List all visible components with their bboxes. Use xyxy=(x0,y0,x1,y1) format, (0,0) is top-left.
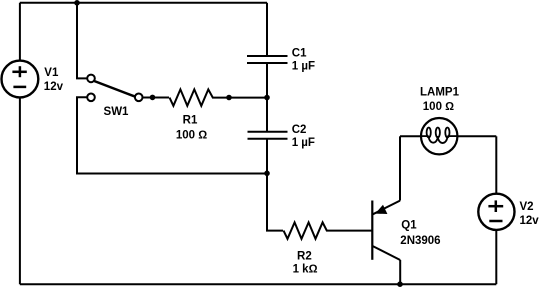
svg-text:R2: R2 xyxy=(297,251,312,263)
svg-text:2N3906: 2N3906 xyxy=(400,235,440,247)
svg-text:C1: C1 xyxy=(292,47,307,59)
svg-text:R1: R1 xyxy=(183,115,198,127)
svg-text:1 µF: 1 µF xyxy=(292,60,315,72)
svg-text:SW1: SW1 xyxy=(104,106,130,118)
svg-text:100 Ω: 100 Ω xyxy=(176,129,207,141)
svg-text:1 µF: 1 µF xyxy=(292,137,315,149)
svg-text:LAMP1: LAMP1 xyxy=(420,87,460,99)
svg-text:1 kΩ: 1 kΩ xyxy=(293,264,318,276)
svg-text:100 Ω: 100 Ω xyxy=(423,101,454,113)
svg-text:V1: V1 xyxy=(44,67,59,79)
svg-text:C2: C2 xyxy=(292,124,307,136)
svg-text:Q1: Q1 xyxy=(401,219,417,231)
svg-text:V2: V2 xyxy=(520,201,534,213)
svg-text:12v: 12v xyxy=(44,81,64,93)
svg-text:12v: 12v xyxy=(520,215,540,227)
